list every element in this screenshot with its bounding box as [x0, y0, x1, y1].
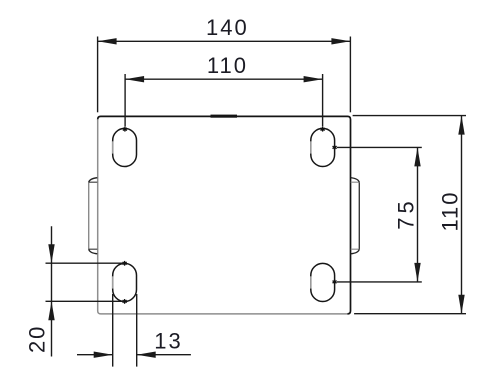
dim 13 extension line left [112, 294, 114, 367]
slot top-right gray left side [310, 141, 312, 153]
dim 110 top extension line right [322, 74, 324, 127]
point mark slot BL bottom [123, 299, 127, 304]
point mark slot BR right [333, 280, 337, 285]
dim 75 line [417, 147, 419, 282]
plate outline gray edges (left + bottom) [98, 119, 348, 314]
dim 110 top extension line left [124, 74, 126, 127]
dim 140 extension line right [349, 37, 351, 113]
slot bottom-left gray left side [112, 276, 114, 288]
svg-text:20: 20 [25, 325, 50, 353]
dim 20 arrow lower (outside, pointing up) [48, 301, 54, 320]
dim 140 arrow right [331, 38, 350, 44]
point mark slot TL top [123, 127, 127, 132]
dim 110 top arrow left [125, 76, 144, 82]
dim 20 line [51, 226, 53, 356]
dim 13 extension line right [136, 294, 138, 367]
slot top-left [113, 128, 137, 166]
dim 110 right extension line top [353, 115, 466, 117]
svg-text:110: 110 [438, 190, 463, 231]
svg-text:110: 110 [207, 53, 248, 78]
dim 75 arrow bottom [414, 263, 420, 282]
dim 13 line right tail [137, 354, 191, 356]
dim 20 arrow upper (outside, pointing down) [48, 244, 54, 263]
svg-text:13: 13 [154, 328, 182, 353]
slot top-right [311, 128, 335, 166]
dim 140 arrow left [98, 38, 117, 44]
point mark slot TR right [333, 145, 337, 150]
slot top-left gray left side [112, 141, 114, 153]
dim 20 extension line bottom [46, 300, 125, 302]
dim 13 line left tail [77, 354, 113, 356]
dim 13 arrow left (outside, pointing right) [94, 352, 113, 358]
slot bottom-right gray left side [310, 276, 312, 288]
plate outline black edges (top + right) [98, 116, 351, 314]
point mark slot TR top [321, 127, 325, 132]
dim 110 top line [125, 78, 323, 80]
dim 110 top arrow right [304, 76, 323, 82]
dim 75 extension line top [337, 146, 422, 148]
dim 110 right arrow top [458, 116, 464, 135]
dim 140 extension line left [97, 37, 99, 113]
slot bottom-left [113, 263, 137, 301]
dim 110 right line [461, 116, 463, 314]
dim 75 extension line bottom [337, 281, 422, 283]
dim 110 right extension line bottom [354, 313, 466, 315]
left tab [89, 178, 98, 254]
point mark slot BL top [123, 261, 127, 266]
dim 13 arrow right (outside, pointing left) [137, 352, 156, 358]
dim 75 arrow top [414, 147, 420, 166]
slot bottom-right [311, 263, 335, 301]
top edge notch [211, 115, 238, 118]
right tab [351, 178, 360, 254]
dim 140 line [98, 40, 351, 42]
dim 110 right arrow bottom [458, 295, 464, 314]
svg-text:140: 140 [206, 15, 249, 40]
svg-text:75: 75 [394, 197, 419, 229]
dim 20 extension line top [46, 262, 125, 264]
